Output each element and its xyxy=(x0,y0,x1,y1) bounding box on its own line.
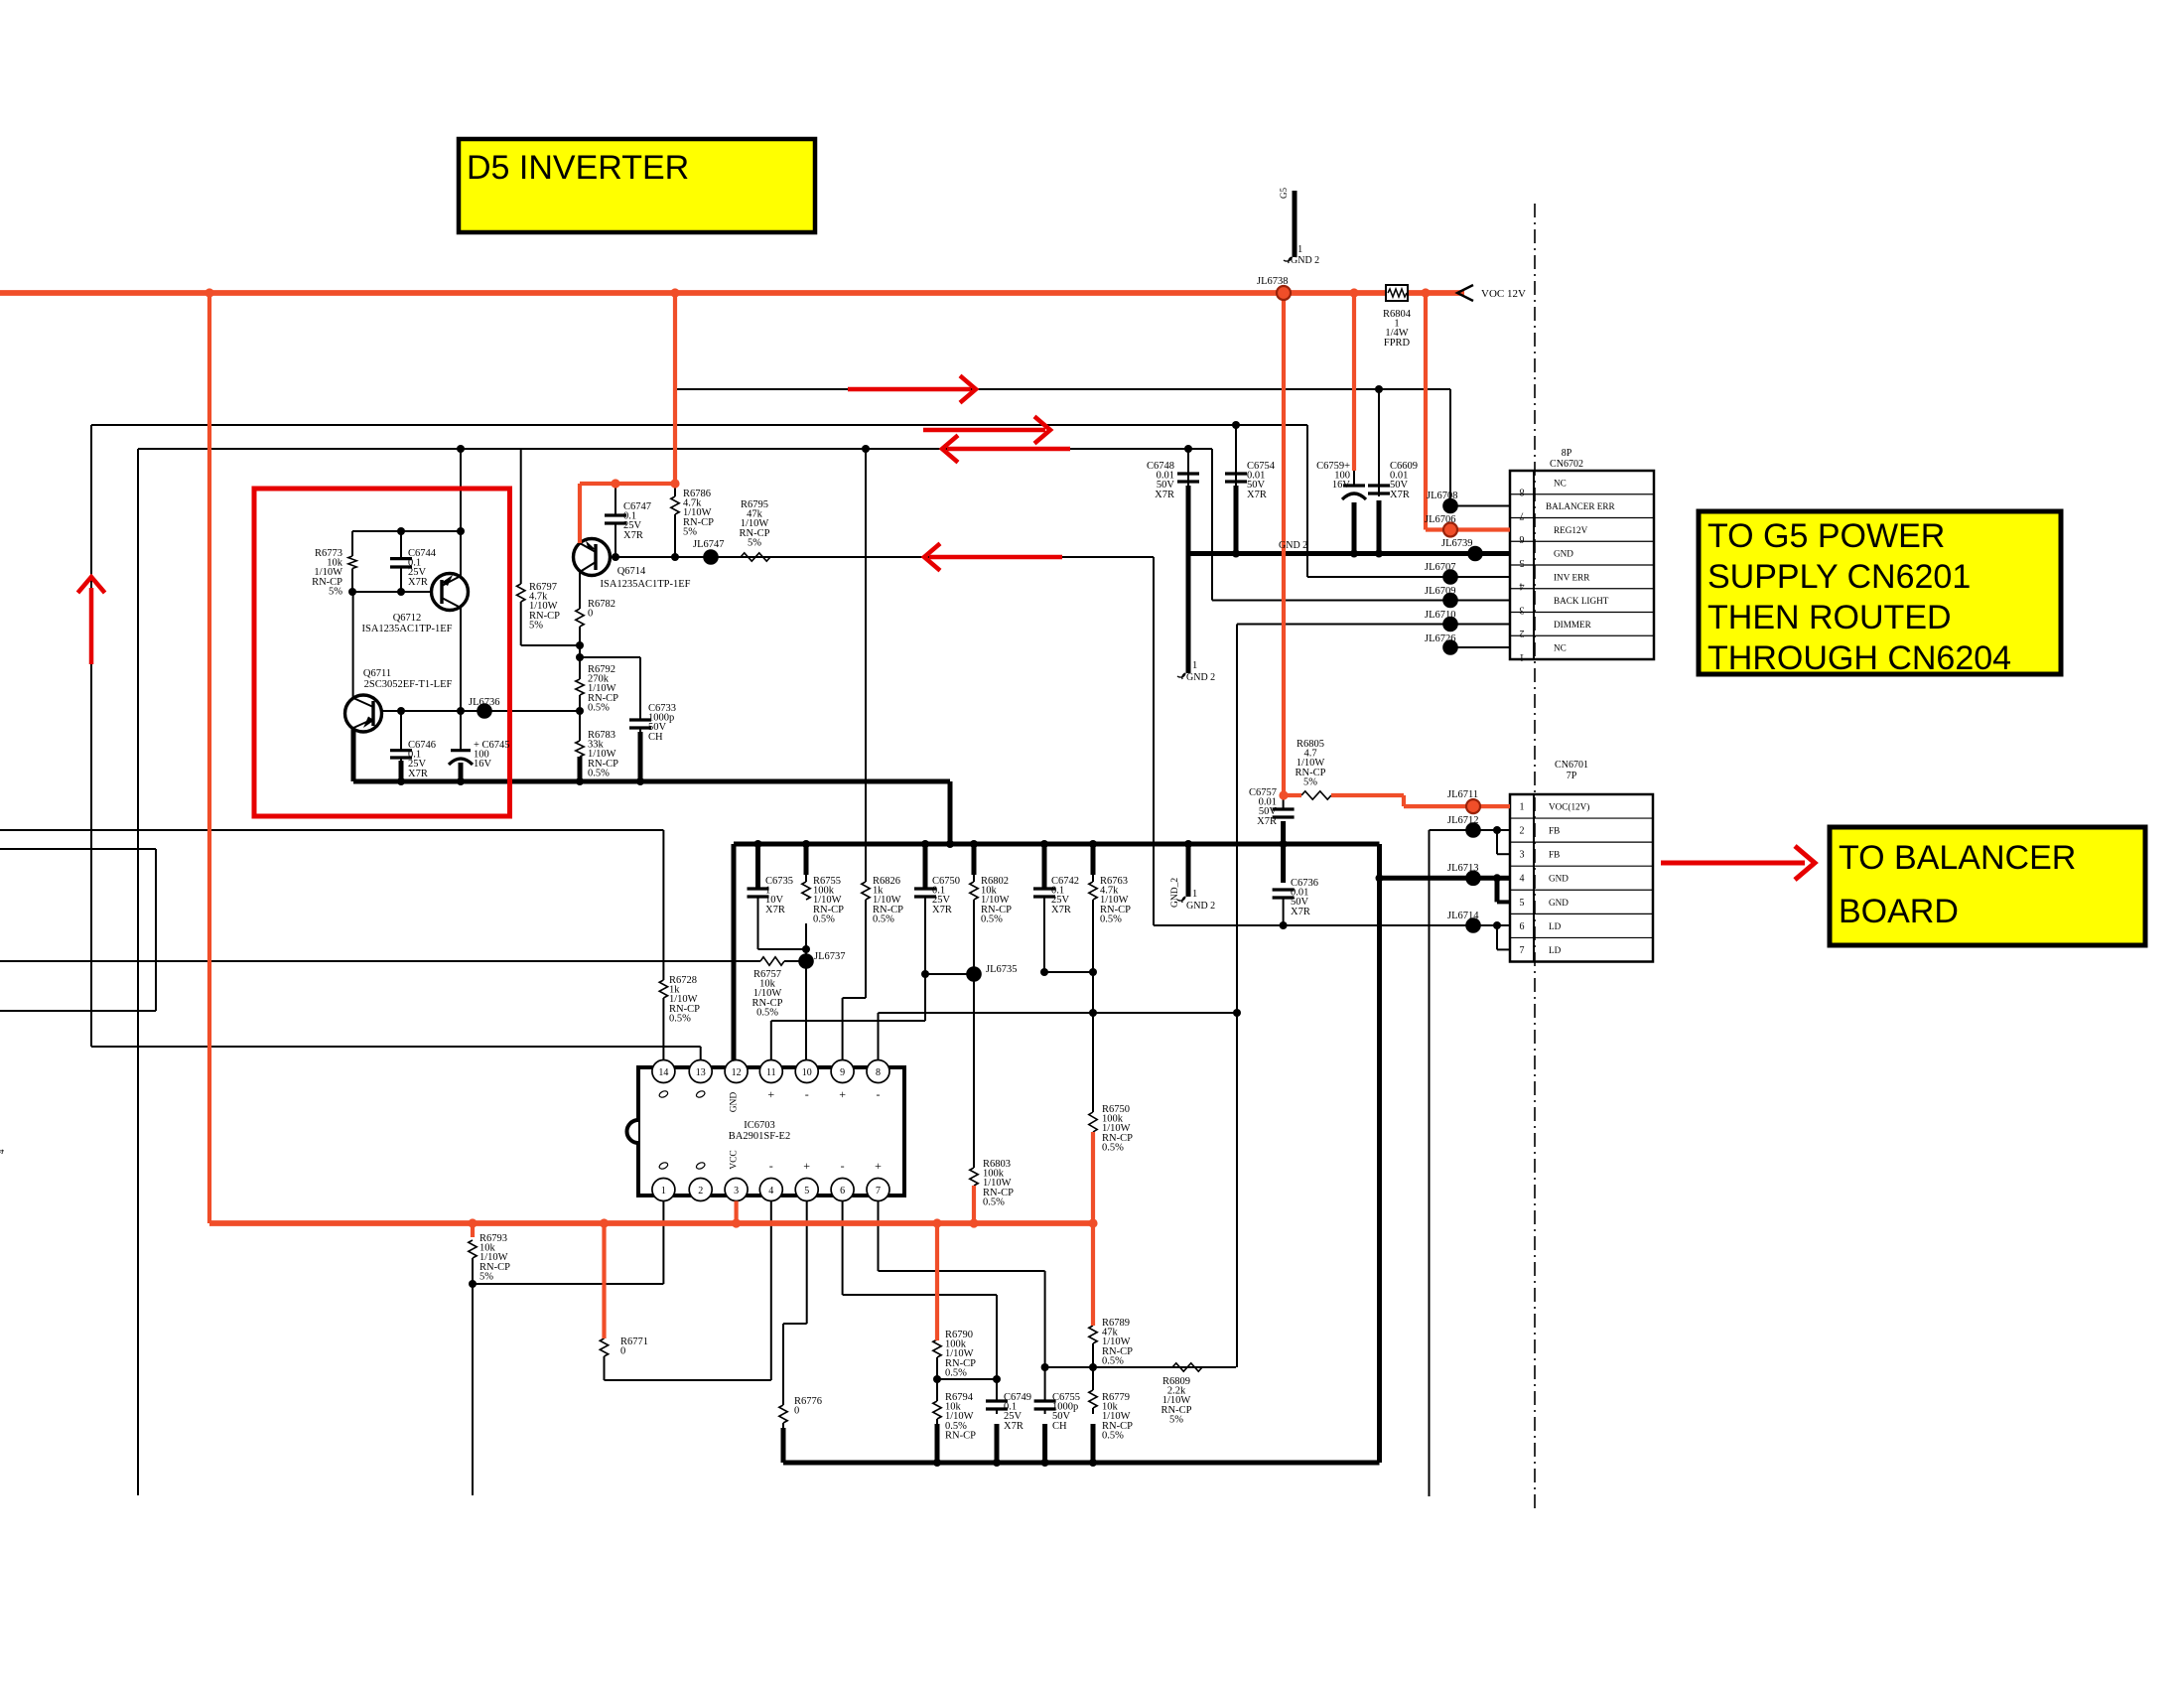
svg-text:THROUGH CN6204: THROUGH CN6204 xyxy=(1707,639,2011,677)
svg-text:1: 1 xyxy=(1192,889,1197,900)
svg-text:BA2901SF-E2: BA2901SF-E2 xyxy=(729,1131,790,1142)
svg-text:7P: 7P xyxy=(1567,771,1577,781)
svg-text:TO G5 POWER: TO G5 POWER xyxy=(1707,517,1945,555)
svg-text:VOC 12V: VOC 12V xyxy=(1481,288,1526,300)
svg-text:Q6712: Q6712 xyxy=(393,613,422,624)
svg-text:R67710: R67710 xyxy=(620,1336,648,1357)
svg-text:CN6701: CN6701 xyxy=(1555,760,1588,771)
svg-text:8: 8 xyxy=(876,1067,881,1078)
svg-text:6: 6 xyxy=(840,1186,845,1196)
svg-text:C67420.125VX7R: C67420.125VX7R xyxy=(1051,876,1079,915)
svg-text:1: 1 xyxy=(1192,660,1197,671)
svg-text:R67760: R67760 xyxy=(794,1396,822,1417)
svg-text:9: 9 xyxy=(840,1067,845,1078)
svg-text:R68261k1/10WRN-CP0.5%: R68261k1/10WRN-CP0.5% xyxy=(873,876,903,924)
svg-text:R67864.7k1/10WRN-CP5%: R67864.7k1/10WRN-CP5% xyxy=(683,489,714,537)
svg-text:R678333k1/10WRN-CP0.5%: R678333k1/10WRN-CP0.5% xyxy=(588,730,618,778)
svg-text:C6735110VX7R: C6735110VX7R xyxy=(765,876,793,915)
svg-text:3: 3 xyxy=(1520,850,1525,861)
svg-text:JL6739: JL6739 xyxy=(1441,538,1473,549)
svg-text:5: 5 xyxy=(1520,898,1525,909)
svg-text:C67470.125VX7R: C67470.125VX7R xyxy=(623,501,651,541)
svg-text:BACK LIGHT: BACK LIGHT xyxy=(1554,596,1609,606)
svg-text:3: 3 xyxy=(1520,604,1525,615)
svg-text:GND_2: GND_2 xyxy=(1170,878,1180,908)
svg-text:JL6708: JL6708 xyxy=(1427,491,1458,501)
svg-text:R67974.7k1/10WRN-CP5%: R67974.7k1/10WRN-CP5% xyxy=(529,582,560,631)
svg-text:C66090.0150VX7R: C66090.0150VX7R xyxy=(1390,461,1418,500)
svg-text:R67820: R67820 xyxy=(588,599,615,620)
svg-text:-: - xyxy=(841,1159,845,1173)
svg-text:12: 12 xyxy=(732,1067,742,1078)
svg-text:JL6711: JL6711 xyxy=(1447,789,1478,800)
svg-text:TO BALANCER: TO BALANCER xyxy=(1839,839,2076,877)
svg-text:4: 4 xyxy=(1520,581,1525,592)
svg-text:NC: NC xyxy=(1554,643,1567,653)
svg-text:R680411/4WFPRD: R680411/4WFPRD xyxy=(1383,309,1412,349)
svg-text:C67460.125VX7R: C67460.125VX7R xyxy=(408,740,436,779)
svg-text:R67281k1/10WRN-CP0.5%: R67281k1/10WRN-CP0.5% xyxy=(669,975,700,1024)
svg-text:C6759+10016V: C6759+10016V xyxy=(1316,461,1350,491)
svg-text:7: 7 xyxy=(876,1186,881,1196)
svg-text:+: + xyxy=(767,1087,774,1101)
svg-text:R679310k1/10WRN-CP5%: R679310k1/10WRN-CP5% xyxy=(479,1233,510,1282)
svg-text:FB: FB xyxy=(1549,826,1560,836)
svg-text:2SC3052EF-T1-LEF: 2SC3052EF-T1-LEF xyxy=(364,679,453,690)
svg-text:JL6707: JL6707 xyxy=(1425,562,1456,573)
svg-text:JL6735: JL6735 xyxy=(986,964,1018,975)
svg-text:-: - xyxy=(769,1159,773,1173)
svg-text:1: 1 xyxy=(1520,802,1525,813)
svg-text:R680210k1/10WRN-CP0.5%: R680210k1/10WRN-CP0.5% xyxy=(981,876,1012,924)
svg-text:DIMMER: DIMMER xyxy=(1554,620,1592,630)
svg-text:C67570.0150VX7R: C67570.0150VX7R xyxy=(1249,787,1277,827)
svg-text:R679410k1/10W0.5%RN-CP: R679410k1/10W0.5%RN-CP xyxy=(945,1392,976,1441)
svg-text:13: 13 xyxy=(696,1067,706,1078)
svg-text:C67490.125VX7R: C67490.125VX7R xyxy=(1004,1392,1031,1432)
svg-text:8P: 8P xyxy=(1562,448,1572,459)
svg-text:GND: GND xyxy=(730,1092,740,1113)
svg-text:LD: LD xyxy=(1549,921,1562,931)
svg-text:7: 7 xyxy=(1520,945,1525,956)
svg-text:JL6710: JL6710 xyxy=(1425,610,1456,621)
svg-text:ISA1235AC1TP-1EF: ISA1235AC1TP-1EF xyxy=(600,579,690,590)
svg-text:JL6736: JL6736 xyxy=(469,697,500,708)
svg-text:GND: GND xyxy=(1549,898,1569,908)
svg-text:2: 2 xyxy=(698,1186,703,1196)
svg-text:5: 5 xyxy=(1520,557,1525,568)
svg-text:1: 1 xyxy=(661,1186,666,1196)
svg-text:C67360.0150VX7R: C67360.0150VX7R xyxy=(1291,878,1318,917)
svg-text:INV ERR: INV ERR xyxy=(1554,572,1590,582)
svg-text:1: 1 xyxy=(1297,244,1302,255)
svg-text:C67500.125VX7R: C67500.125VX7R xyxy=(932,876,960,915)
svg-text:CN6702: CN6702 xyxy=(1550,459,1583,470)
svg-text:+: + xyxy=(875,1159,882,1173)
svg-text:C67440.125VX7R: C67440.125VX7R xyxy=(408,548,437,588)
svg-text:C67331000p50VCH: C67331000p50VCH xyxy=(648,703,676,743)
svg-text:2: 2 xyxy=(1520,826,1525,837)
svg-text:LD: LD xyxy=(1549,945,1562,955)
svg-text:R6790100k1/10WRN-CP0.5%: R6790100k1/10WRN-CP0.5% xyxy=(945,1330,976,1378)
svg-text:JL6706: JL6706 xyxy=(1425,514,1456,525)
svg-text:JL6709: JL6709 xyxy=(1425,586,1456,597)
svg-text:-: - xyxy=(877,1087,881,1101)
svg-text:6: 6 xyxy=(1520,533,1525,544)
svg-text:4: 4 xyxy=(1520,874,1525,885)
svg-text:+ C674510016V: + C674510016V xyxy=(474,740,510,770)
svg-text:G5: G5 xyxy=(1279,188,1289,199)
svg-text:2: 2 xyxy=(1520,628,1525,638)
svg-text:BALANCER ERR: BALANCER ERR xyxy=(1546,501,1616,511)
svg-text:THEN ROUTED: THEN ROUTED xyxy=(1707,599,1952,636)
svg-text:FB: FB xyxy=(1549,850,1560,860)
svg-text:JL6713: JL6713 xyxy=(1447,863,1479,874)
svg-text:JL6738: JL6738 xyxy=(1257,276,1289,287)
svg-text:R679547k1/10WRN-CP5%: R679547k1/10WRN-CP5% xyxy=(740,499,770,548)
svg-text:14: 14 xyxy=(658,1067,668,1078)
svg-text:R675710k1/10WRN-CP0.5%: R675710k1/10WRN-CP0.5% xyxy=(752,969,783,1018)
svg-text:R678947k1/10WRN-CP0.5%: R678947k1/10WRN-CP0.5% xyxy=(1102,1318,1133,1366)
svg-text:IC6703: IC6703 xyxy=(744,1120,775,1131)
svg-text:R68054.71/10WRN-CP5%: R68054.71/10WRN-CP5% xyxy=(1296,739,1326,787)
svg-text:BOARD: BOARD xyxy=(1839,893,1959,930)
svg-text:SUPPLY CN6201: SUPPLY CN6201 xyxy=(1707,558,1971,596)
svg-text:1: 1 xyxy=(1520,651,1525,662)
svg-text:R6755100k1/10WRN-CP0.5%: R6755100k1/10WRN-CP0.5% xyxy=(813,876,844,924)
svg-text:R677910k1/10WRN-CP0.5%: R677910k1/10WRN-CP0.5% xyxy=(1102,1392,1133,1441)
svg-text:VOC(12V): VOC(12V) xyxy=(1549,802,1589,812)
svg-text:VCC: VCC xyxy=(730,1150,740,1170)
svg-text:GND: GND xyxy=(1554,549,1573,559)
svg-text:C67480.0150VX7R: C67480.0150VX7R xyxy=(1147,461,1174,500)
svg-text:R6803100k1/10WRN-CP0.5%: R6803100k1/10WRN-CP0.5% xyxy=(983,1159,1014,1207)
svg-text:4: 4 xyxy=(768,1186,773,1196)
svg-text:JL6747: JL6747 xyxy=(693,539,725,550)
svg-text:7: 7 xyxy=(1520,509,1525,520)
svg-text:JL6714: JL6714 xyxy=(1447,911,1479,921)
svg-text:4: 4 xyxy=(0,1149,6,1154)
svg-text:R6792270k1/10WRN-CP0.5%: R6792270k1/10WRN-CP0.5% xyxy=(588,664,618,713)
svg-text:GND 2: GND 2 xyxy=(1279,540,1307,551)
svg-text:C67540.0150VX7R: C67540.0150VX7R xyxy=(1247,461,1276,500)
svg-text:Q6714: Q6714 xyxy=(617,566,646,577)
svg-text:ISA1235AC1TP-1EF: ISA1235AC1TP-1EF xyxy=(361,624,452,634)
svg-text:8: 8 xyxy=(1520,487,1525,497)
svg-text:REG12V: REG12V xyxy=(1554,525,1588,535)
svg-text:R677310k1/10WRN-CP5%: R677310k1/10WRN-CP5% xyxy=(312,548,343,597)
svg-text:10: 10 xyxy=(802,1067,812,1078)
svg-text:JL6712: JL6712 xyxy=(1447,815,1479,826)
svg-text:R68092.2k1/10WRN-CP5%: R68092.2k1/10WRN-CP5% xyxy=(1161,1376,1192,1425)
svg-text:GND 2: GND 2 xyxy=(1186,672,1215,683)
svg-text:C67551000p50VCH: C67551000p50VCH xyxy=(1052,1392,1080,1432)
svg-text:3: 3 xyxy=(734,1186,739,1196)
svg-text:+: + xyxy=(803,1159,810,1173)
svg-text:JL6726: JL6726 xyxy=(1425,633,1456,644)
svg-text:6: 6 xyxy=(1520,921,1525,932)
svg-text:5: 5 xyxy=(804,1186,809,1196)
svg-text:JL6737: JL6737 xyxy=(814,951,846,962)
svg-text:GND 2: GND 2 xyxy=(1186,901,1215,912)
svg-text:+: + xyxy=(839,1087,846,1101)
svg-text:NC: NC xyxy=(1554,478,1567,488)
svg-text:R67634.7k1/10WRN-CP0.5%: R67634.7k1/10WRN-CP0.5% xyxy=(1100,876,1131,924)
svg-text:11: 11 xyxy=(766,1067,776,1078)
svg-text:GND 2: GND 2 xyxy=(1291,255,1319,266)
svg-text:Q6711: Q6711 xyxy=(363,668,391,679)
svg-text:GND: GND xyxy=(1549,874,1569,884)
svg-text:-: - xyxy=(805,1087,809,1101)
svg-text:D5 INVERTER: D5 INVERTER xyxy=(467,149,689,187)
svg-text:R6750100k1/10WRN-CP0.5%: R6750100k1/10WRN-CP0.5% xyxy=(1102,1104,1133,1153)
